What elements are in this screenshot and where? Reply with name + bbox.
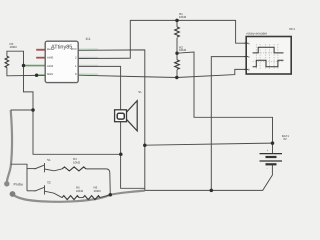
svg-text:S1: S1	[138, 90, 142, 94]
svg-text:Probe: Probe	[14, 182, 24, 186]
svg-text:10kΩ: 10kΩ	[73, 160, 81, 164]
svg-text:+: +	[267, 149, 269, 153]
svg-text:AIN0: AIN0	[47, 56, 54, 60]
svg-text:B: B	[248, 69, 250, 72]
svg-text:10kΩ: 10kΩ	[179, 48, 187, 52]
svg-text:IC1: IC1	[86, 37, 91, 41]
svg-text:Reset: Reset	[47, 47, 55, 51]
svg-text:10kΩ: 10kΩ	[179, 15, 187, 19]
svg-text:10kΩ: 10kΩ	[94, 189, 102, 193]
svg-text:RE1: RE1	[289, 27, 295, 31]
svg-text:A: A	[248, 43, 250, 46]
svg-text:rotary encoder: rotary encoder	[247, 32, 268, 36]
svg-text:10kΩ: 10kΩ	[10, 45, 18, 49]
svg-text:3V: 3V	[283, 137, 287, 141]
svg-text:10kΩ: 10kΩ	[76, 189, 84, 193]
svg-text:S1: S1	[47, 158, 51, 162]
svg-text:GND: GND	[47, 72, 53, 76]
svg-text:-: -	[267, 166, 268, 170]
svg-text:S2: S2	[47, 181, 51, 185]
svg-text:VCC: VCC	[71, 47, 77, 51]
svg-text:C: C	[248, 56, 250, 59]
svg-text:AIN2: AIN2	[47, 64, 54, 68]
